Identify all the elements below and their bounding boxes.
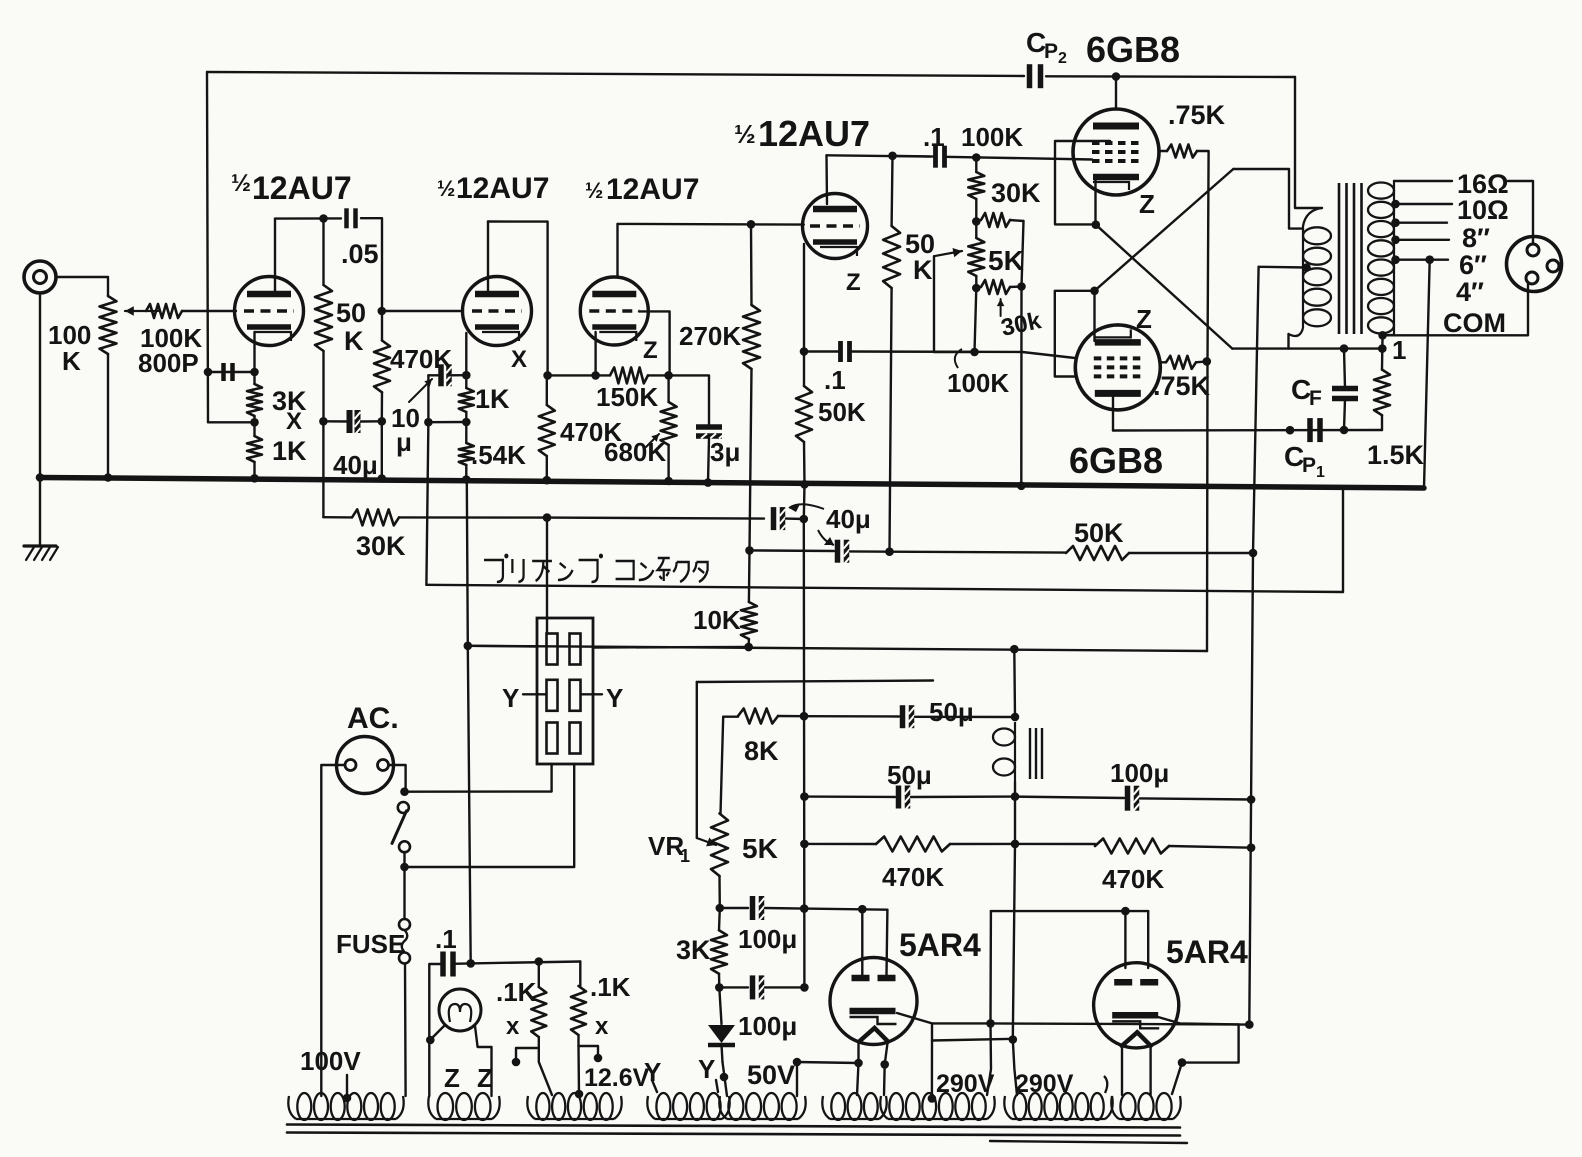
wire 50u1 right xyxy=(915,716,1015,719)
label Y 12.6 xyxy=(644,1057,661,1087)
Y stub right xyxy=(581,683,623,713)
preamp return row xyxy=(426,585,1343,592)
wire 40u right xyxy=(361,420,382,423)
resistor .1K left xyxy=(531,987,546,1037)
node dot b+ 843 xyxy=(1011,840,1020,849)
node dot cath V2a xyxy=(591,371,600,380)
svg-text:100μ: 100μ xyxy=(738,924,797,954)
label 100K 800P xyxy=(138,323,202,378)
resistor .75K lower xyxy=(1166,356,1196,369)
wire 4ohm to bus end xyxy=(1424,260,1430,488)
g3 bracket upper xyxy=(1055,141,1110,224)
svg-text:.75K: .75K xyxy=(1168,100,1226,130)
svg-text:.1: .1 xyxy=(824,365,846,395)
capacitor 100u2 xyxy=(753,975,765,1000)
svg-text:12.6V: 12.6V xyxy=(584,1064,650,1092)
svg-text:3μ: 3μ xyxy=(710,437,740,467)
wire .75K low join xyxy=(1196,360,1207,363)
label 4 xyxy=(1456,277,1484,307)
row cap3 50K4 xyxy=(750,549,835,552)
node dot CP1 right xyxy=(1340,426,1349,435)
wire row375 to 3u xyxy=(669,375,709,424)
winding 290V a xyxy=(880,1093,994,1120)
50V right lead xyxy=(793,1058,802,1096)
label CF xyxy=(1291,374,1322,410)
label 270K xyxy=(679,321,741,351)
label 30K xyxy=(356,531,406,561)
wire 50K fb right xyxy=(1129,552,1253,554)
label 8 xyxy=(1462,223,1490,253)
label 5AR4 #1 xyxy=(899,927,981,963)
ground xyxy=(24,546,58,560)
wire box right col to bus xyxy=(1020,287,1023,486)
input jack J1 xyxy=(24,261,56,293)
capacitor 50u1 xyxy=(903,705,915,730)
svg-text:4″: 4″ xyxy=(1456,277,1484,307)
wire box top xyxy=(1010,220,1024,221)
wire 30K fb left xyxy=(323,516,352,519)
svg-text:680K: 680K xyxy=(604,437,666,467)
node dot 10K bottom xyxy=(744,643,753,652)
wire CF col xyxy=(1344,349,1345,430)
top rail xyxy=(207,72,1024,76)
node dot 470Kb right xyxy=(1247,843,1256,852)
svg-text:10Ω: 10Ω xyxy=(1457,195,1509,225)
node dot .1 xyxy=(466,959,475,968)
arrow 100K mid xyxy=(955,349,962,368)
plate lead V1b xyxy=(487,222,489,293)
plate row V2a to V3 grid xyxy=(618,223,804,226)
wire 100u2 right xyxy=(765,986,804,988)
node dot 3K 1K xyxy=(250,418,259,427)
plate lead V2b xyxy=(825,155,828,204)
label V1b xyxy=(437,172,549,205)
.1K left to winding xyxy=(539,1048,552,1095)
wire 470K st2 xyxy=(546,375,548,480)
wire .1 to grid row xyxy=(945,157,1093,160)
cathode lead 6GB8b xyxy=(1093,291,1095,341)
node dot cathode V1a xyxy=(250,368,259,377)
svg-text:½: ½ xyxy=(585,178,603,203)
wire 30K chain xyxy=(975,158,977,222)
label 50V xyxy=(747,1060,795,1090)
node dot fil1 xyxy=(854,1059,889,1069)
AC right wire xyxy=(389,765,406,792)
svg-text:.1K: .1K xyxy=(496,977,537,1007)
plate top V1b xyxy=(488,222,548,376)
anode leads 5AR4a xyxy=(862,909,887,975)
wire 100u3 right xyxy=(1140,798,1251,799)
resistor 1.5K xyxy=(1374,370,1390,416)
g3 bracket lower xyxy=(1055,291,1095,377)
node dot bus 470K xyxy=(378,474,387,483)
label .75K upper xyxy=(1168,100,1226,130)
label .1K right xyxy=(590,972,631,1040)
label 6GB8 bottom xyxy=(1069,440,1163,481)
label V1a xyxy=(231,170,352,206)
wire .1b left xyxy=(804,350,840,352)
label Z Z xyxy=(444,1063,493,1093)
b+ joint row xyxy=(932,1023,1014,1040)
label 40u xyxy=(333,450,378,480)
svg-text:½: ½ xyxy=(231,170,251,197)
tube V1b 12AU7 xyxy=(463,277,532,346)
wire .05 to corner xyxy=(361,218,382,311)
cathode lead V1a xyxy=(253,332,255,372)
node dot 3K top xyxy=(716,904,725,913)
node dot 3K bottom xyxy=(715,983,724,992)
node dot 50K3 top xyxy=(888,152,897,161)
svg-text:100μ: 100μ xyxy=(1110,758,1169,788)
label 470K st2 xyxy=(560,417,622,447)
svg-text:K: K xyxy=(344,326,364,356)
row 8K 50u xyxy=(723,716,738,718)
label X V1b xyxy=(511,346,527,373)
cath row B+ xyxy=(991,1023,1250,1024)
resistor 3K xyxy=(247,384,262,416)
tube 6GB8 upper xyxy=(1073,109,1159,195)
svg-text:50μ: 50μ xyxy=(887,760,932,790)
svg-text:290V: 290V xyxy=(1015,1070,1074,1098)
row 647 xyxy=(468,646,1207,651)
primary bottom curl xyxy=(1289,328,1304,349)
svg-text:X: X xyxy=(511,346,527,373)
fuse to winding xyxy=(404,964,407,1097)
pot VR 100K xyxy=(100,296,117,354)
tube 5AR4 #1 xyxy=(830,958,917,1045)
wire 1.5K xyxy=(1381,349,1384,430)
resistor 8K xyxy=(738,709,778,724)
svg-text:1: 1 xyxy=(1392,335,1406,365)
svg-text:6GB8: 6GB8 xyxy=(1086,29,1180,70)
anode row 2 xyxy=(991,910,1148,912)
label 50u2 xyxy=(887,760,932,790)
svg-text:VR: VR xyxy=(648,831,684,861)
resistor 470K st2 xyxy=(539,405,555,456)
wire 50K col to 30K xyxy=(322,421,324,517)
svg-text:30K: 30K xyxy=(991,178,1041,208)
label 1K st1 xyxy=(272,436,307,466)
arrow 40u a xyxy=(789,504,824,512)
label .1 top xyxy=(923,122,945,152)
label 5AR4 #2 xyxy=(1166,934,1248,970)
label 100K mid xyxy=(947,368,1009,398)
wire cap3 right xyxy=(850,550,890,553)
wiper row 681 xyxy=(697,681,933,683)
wire 3u bottom xyxy=(708,438,709,483)
pin1 top wire xyxy=(546,518,548,634)
label 680K xyxy=(604,437,666,467)
speaker connector xyxy=(1507,237,1562,292)
wire sec bottom to 1.5K xyxy=(1381,335,1384,348)
node dot CP1 left xyxy=(1286,426,1295,435)
pot 5K bal xyxy=(968,238,984,276)
capacitor 100u3 xyxy=(1128,786,1140,811)
sec tap 6 xyxy=(1391,236,1449,245)
wire 470K leads xyxy=(381,311,384,421)
label 30k small xyxy=(999,307,1044,342)
tube V2a 12AU7 xyxy=(580,277,648,345)
svg-text:50: 50 xyxy=(336,298,366,328)
wire 40u bias right xyxy=(786,517,804,520)
resistor .1K right xyxy=(571,986,586,1035)
arrow 40u b xyxy=(818,530,834,545)
label 3u xyxy=(710,437,740,467)
label 50u1 xyxy=(929,697,974,727)
AC plug xyxy=(337,737,394,794)
b+ col down xyxy=(1013,649,1015,1039)
row 50K4 xyxy=(890,551,1067,554)
resistor 50K V1a load xyxy=(315,219,332,422)
wire 30K to node xyxy=(399,516,547,519)
svg-text:Z: Z xyxy=(1139,189,1155,219)
fil legs 5AR4b xyxy=(1122,1046,1151,1095)
svg-text:Z: Z xyxy=(477,1063,493,1093)
row 50u2 xyxy=(804,795,895,798)
capacitor 3u xyxy=(696,427,725,439)
node dot 50K fb xyxy=(1249,549,1258,558)
svg-text:1K: 1K xyxy=(272,436,307,466)
nfb line CP2 left xyxy=(208,371,255,373)
diode to 50V winding xyxy=(720,1062,729,1096)
label 470K st1 xyxy=(390,344,452,374)
capacitor 50u2 xyxy=(899,786,911,811)
anode row 1 xyxy=(804,909,887,910)
winding 50V xyxy=(719,1093,805,1120)
row 50u1 xyxy=(804,715,899,718)
fil2 right riser xyxy=(1172,1058,1186,1094)
wire 470Ka right xyxy=(950,843,1015,845)
svg-text:100K: 100K xyxy=(947,368,1009,398)
lamp wire row xyxy=(471,962,581,964)
svg-text:x: x xyxy=(595,1013,609,1040)
label 100K top xyxy=(961,122,1023,152)
label 3K xyxy=(272,386,307,416)
resistor 100K series xyxy=(146,304,182,318)
svg-text:.75K: .75K xyxy=(1153,371,1211,401)
label 6GB8 top xyxy=(1086,29,1180,70)
node dot .75K join xyxy=(1203,357,1212,366)
wire pot to bus xyxy=(107,354,109,478)
Y stub left xyxy=(502,683,547,713)
primary winding xyxy=(1303,208,1331,328)
node dot cath V2b xyxy=(800,347,809,356)
8K col to VR1 xyxy=(721,717,724,814)
cathode lead V1b xyxy=(465,333,467,375)
capacitor 800P xyxy=(224,363,233,381)
winding fil1 xyxy=(822,1093,886,1120)
tube V1a 12AU7 xyxy=(235,277,304,346)
svg-text:.1: .1 xyxy=(435,924,457,954)
node dot bus pot xyxy=(104,473,113,482)
tube V2b 12AU7 xyxy=(803,194,868,259)
label 6 xyxy=(1459,250,1487,280)
hv ct drop xyxy=(928,1041,937,1103)
lower cath to prim tap xyxy=(1233,169,1303,229)
svg-text:8″: 8″ xyxy=(1462,223,1490,253)
wire switch to fuse xyxy=(403,867,405,919)
svg-text:2: 2 xyxy=(1058,50,1067,67)
wire .75K up corner xyxy=(1197,151,1209,361)
node dot 50u2 left xyxy=(800,792,809,801)
node dot 470Ka left xyxy=(800,840,809,849)
wire 10K leads xyxy=(747,550,750,647)
ground stub 40u xyxy=(803,484,806,519)
wire 1K st2 xyxy=(465,375,467,422)
svg-text:5AR4: 5AR4 xyxy=(1166,934,1248,970)
resistor 270K xyxy=(743,305,760,369)
wiper arrow 5K bal xyxy=(934,248,962,352)
winding Y xyxy=(647,1093,729,1120)
cathode lead V2b xyxy=(803,244,805,352)
wire 3K-1K xyxy=(253,372,255,436)
resistor 30K fb xyxy=(352,509,399,525)
svg-text:.05: .05 xyxy=(341,239,379,269)
connector block xyxy=(537,618,593,764)
resistor .54K xyxy=(459,443,474,465)
sec tap 16 xyxy=(1394,180,1452,182)
resistor 50K plate xyxy=(883,226,900,288)
wire 50u2 right xyxy=(911,795,1015,798)
label 100V xyxy=(300,1046,361,1076)
node dot 30K right xyxy=(543,513,552,522)
plate lead V2a xyxy=(616,224,618,278)
wire 270K col xyxy=(750,224,752,550)
svg-text:.1: .1 xyxy=(923,122,945,152)
diagonal lower cath xyxy=(1095,169,1234,291)
sec tap 4 xyxy=(1391,255,1448,264)
svg-text:12AU7: 12AU7 xyxy=(252,170,352,206)
switch bottom wire xyxy=(403,852,405,867)
node dot 4ohm gnd xyxy=(1425,255,1434,264)
label preamp connector xyxy=(484,554,708,582)
svg-text:10K: 10K xyxy=(693,605,741,635)
node dot cath 990 xyxy=(986,1019,995,1028)
b+ to 290V2 xyxy=(1013,1040,1017,1096)
label Z 6GB8b xyxy=(1136,304,1152,334)
wiper join row xyxy=(934,351,975,353)
svg-text:P: P xyxy=(1044,40,1058,63)
lamp left to winding xyxy=(428,1040,430,1096)
svg-text:100K: 100K xyxy=(961,122,1023,152)
svg-text:1: 1 xyxy=(1316,464,1325,481)
capacitor .1 phase xyxy=(841,341,850,362)
svg-text:Z: Z xyxy=(846,269,861,296)
diagonal upper cath xyxy=(1096,225,1233,349)
wire 54K col below bus xyxy=(467,480,468,646)
diode D1 xyxy=(708,987,735,1062)
node dot cath B+ xyxy=(1245,1020,1254,1029)
tube 6GB8 lower xyxy=(1075,325,1160,410)
resistor 470K b xyxy=(1095,839,1169,854)
resistor 50K fb xyxy=(1066,546,1129,560)
label V2a xyxy=(585,173,699,206)
hv riser 990 xyxy=(987,911,991,1095)
node dot 100u3 right xyxy=(1247,795,1256,804)
label X V1a xyxy=(286,408,302,435)
resistor 50K V2b ck xyxy=(796,386,812,442)
CP1 row xyxy=(1113,429,1382,432)
wire 1K to bus xyxy=(253,462,255,478)
label 50K ck xyxy=(818,397,866,427)
resistor .75K upper xyxy=(1167,145,1197,158)
wire 16 to pin xyxy=(1508,181,1533,243)
svg-text:50V: 50V xyxy=(747,1060,795,1090)
label Z 6GB8a xyxy=(1139,189,1155,219)
cathode lead V2a xyxy=(594,332,596,375)
resistor 150K xyxy=(610,367,648,383)
wire row375 left xyxy=(548,374,596,376)
label 5K bal xyxy=(988,245,1024,276)
node dot 1.5K top xyxy=(1378,344,1387,353)
tap 100V xyxy=(343,1075,352,1102)
svg-text:K: K xyxy=(62,346,81,376)
label VR1 xyxy=(648,831,690,866)
label 10u xyxy=(391,403,420,457)
fil2 L route xyxy=(1182,1024,1239,1062)
svg-text:12AU7: 12AU7 xyxy=(606,173,699,206)
wire .1b right xyxy=(850,350,1023,353)
svg-text:.54K: .54K xyxy=(471,440,526,470)
wire 50K3 xyxy=(890,156,893,552)
wire box right xyxy=(1010,221,1024,287)
node dot box TL xyxy=(972,217,981,226)
node dot row647 left xyxy=(464,642,473,651)
node dot cath 6GB8b xyxy=(1090,287,1099,296)
primary CT tap xyxy=(1259,263,1311,272)
plate lead V1a xyxy=(274,219,276,292)
node dot .05/50K xyxy=(319,214,328,223)
svg-text:40μ: 40μ xyxy=(826,504,871,534)
svg-text:K: K xyxy=(913,255,933,285)
fil legs 5AR4a xyxy=(859,1042,888,1064)
resistor 1K st1 xyxy=(247,436,262,462)
wire 680K xyxy=(667,375,669,481)
svg-text:40μ: 40μ xyxy=(333,450,378,480)
node dot b+ 790 xyxy=(1011,792,1020,801)
label COM xyxy=(1443,308,1506,338)
node dot 1K 54K xyxy=(462,418,471,427)
node dot box BR xyxy=(1017,282,1026,291)
preamp box left xyxy=(426,422,428,585)
core lines xyxy=(1339,183,1362,334)
label CP2 xyxy=(1026,27,1067,67)
label .1 line xyxy=(435,924,457,954)
resistor 470K g2 xyxy=(374,341,390,393)
winding fil2 xyxy=(1111,1093,1180,1120)
row647 to screens xyxy=(1206,650,1208,652)
node dot CF top xyxy=(1340,344,1349,353)
label .54K xyxy=(471,440,526,470)
nfb bottom to cathode xyxy=(208,421,255,423)
label FUSE xyxy=(336,929,405,959)
svg-text:5K: 5K xyxy=(742,833,778,864)
svg-text:8K: 8K xyxy=(744,736,779,766)
pt core xyxy=(287,1125,1187,1144)
wire 50K ck xyxy=(803,352,806,485)
label 470K a xyxy=(882,862,944,892)
node dot grid2 tap xyxy=(378,307,387,316)
svg-text:30K: 30K xyxy=(356,531,406,561)
B+ vertical xyxy=(1249,267,1258,1025)
wire .1 coupling left xyxy=(893,155,936,158)
row 100u3 xyxy=(1015,797,1124,798)
wire .1K right top xyxy=(579,962,581,987)
node dot anode2a xyxy=(1121,907,1130,916)
gnd riser 1343 xyxy=(1342,489,1344,593)
node dot row647 B+ xyxy=(1010,645,1019,654)
svg-text:150K: 150K xyxy=(596,382,658,412)
